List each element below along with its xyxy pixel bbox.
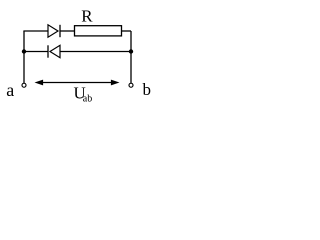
terminal b circle bbox=[129, 83, 133, 87]
wire left vertical (a to top corner) bbox=[23, 31, 25, 83]
terminal a circle bbox=[22, 83, 26, 87]
diode D1 (points right) bbox=[48, 25, 60, 37]
wire middle branch right segment bbox=[60, 51, 131, 53]
resistor R body bbox=[75, 26, 122, 36]
wire resistor to right corner bbox=[122, 30, 132, 32]
wire top branch left segment bbox=[23, 30, 48, 32]
wire diode D1 to resistor bbox=[60, 30, 75, 32]
junction dot right bbox=[129, 49, 133, 53]
svg-text:R: R bbox=[81, 6, 93, 25]
voltage arrow Uab (double headed) bbox=[35, 80, 120, 86]
svg-text:b: b bbox=[143, 80, 152, 99]
wire middle branch left segment bbox=[24, 51, 48, 53]
svg-text:Uab: Uab bbox=[74, 84, 93, 105]
svg-text:a: a bbox=[6, 80, 14, 100]
diode D2 (points left) bbox=[48, 45, 60, 57]
wire right vertical (top corner to b) bbox=[130, 31, 132, 83]
junction dot left bbox=[22, 49, 26, 53]
